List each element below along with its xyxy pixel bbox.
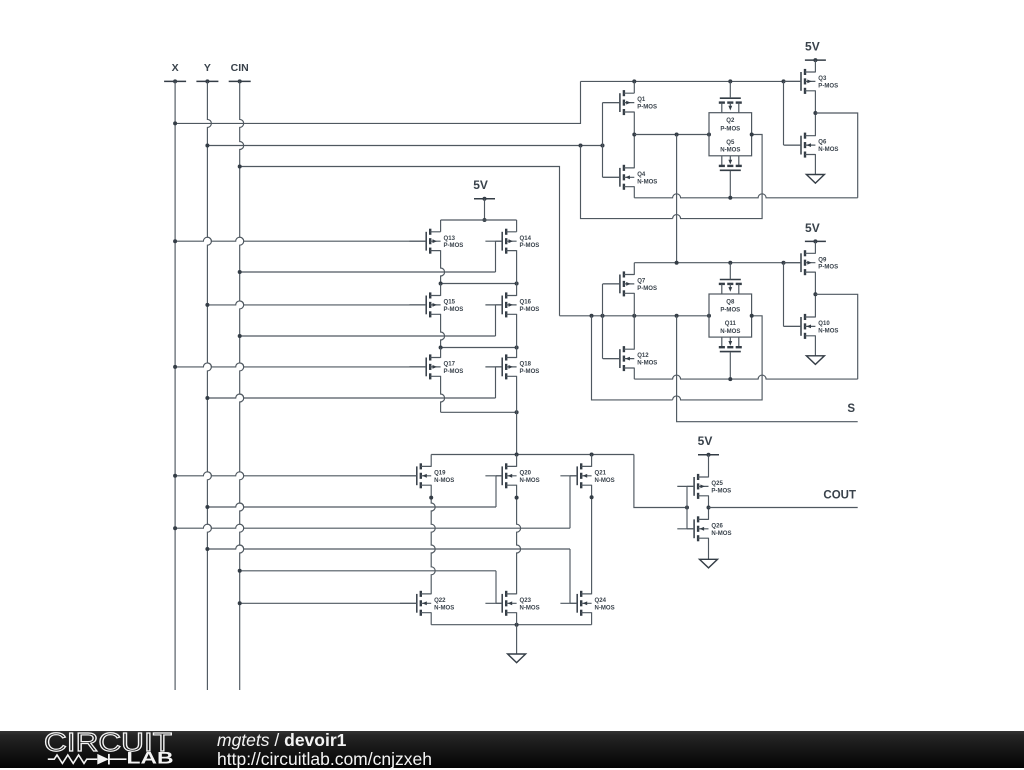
transistor Q4 — [603, 165, 657, 190]
junction node M1 — [632, 133, 636, 137]
wire cell1 top rail — [581, 80, 802, 82]
junction M1 drop tee — [675, 133, 679, 137]
junction tgate1 input — [707, 133, 711, 137]
svg-text:P-MOS: P-MOS — [711, 488, 731, 494]
wire Q24 source down — [591, 612, 593, 624]
footer url text — [217, 749, 432, 770]
transistor Q19 — [400, 463, 454, 488]
wire matrix rail P4 — [441, 411, 517, 413]
svg-text:N-MOS: N-MOS — [720, 148, 740, 154]
svg-text:CIN: CIN — [231, 62, 249, 74]
junction P4 right — [515, 410, 519, 414]
svg-text:Q5: Q5 — [726, 140, 735, 146]
wire right col seg3 — [516, 314, 518, 358]
svg-text:Q22: Q22 — [434, 598, 446, 604]
svg-text:Q17: Q17 — [444, 362, 456, 368]
transistor Q6 — [784, 133, 838, 158]
wire N col2 top — [516, 455, 518, 467]
svg-text:Q14: Q14 — [520, 236, 532, 242]
wire Y to cell1 gates — [207, 145, 602, 147]
svg-text:P-MOS: P-MOS — [444, 369, 464, 375]
junction tgate2 input — [707, 314, 711, 318]
svg-text:Q8: Q8 — [726, 300, 735, 306]
wire cell2 gate vertical — [602, 284, 604, 359]
junction tgate1 output — [750, 133, 754, 137]
svg-text:N-MOS: N-MOS — [434, 605, 454, 611]
junction rail2 M1 — [675, 261, 679, 265]
transistor Q7 — [603, 271, 657, 296]
junction rail2 Q8 gate — [728, 261, 732, 265]
junction CIN tap3 — [238, 334, 242, 338]
junction CIN tap5 — [238, 601, 242, 605]
transistor Q24 — [560, 591, 614, 616]
svg-text:COUT: COUT — [823, 489, 856, 501]
wire Q4 source down — [633, 186, 635, 198]
power 5V cell2 — [805, 221, 826, 244]
svg-text:P-MOS: P-MOS — [720, 126, 740, 132]
junction X tap3 — [173, 365, 177, 369]
svg-text:Q21: Q21 — [595, 470, 607, 476]
junction S drop tee — [675, 314, 679, 318]
transistor Q18 — [485, 354, 539, 379]
svg-text:Q19: Q19 — [434, 470, 446, 476]
wire Q25 Q26 gate vertical — [686, 486, 688, 528]
wire Y to Q15 gate — [207, 301, 426, 305]
wire Q1 drain to Q4 drain — [633, 112, 635, 169]
junction X tap4 — [173, 474, 177, 478]
wire carry node to inverter — [634, 455, 687, 508]
junction tgate2 output — [750, 314, 754, 318]
svg-text:N-MOS: N-MOS — [434, 478, 454, 484]
svg-text:P-MOS: P-MOS — [637, 105, 657, 111]
node Y input terminal — [196, 62, 218, 83]
junction N1 Q20 — [515, 453, 519, 457]
junction Y tap4 — [205, 505, 209, 509]
wire Q3 drain to Q6 drain — [814, 90, 816, 136]
transistor Q22 — [400, 591, 454, 616]
wire Y to Q24 gate — [207, 545, 570, 549]
svg-text:P-MOS: P-MOS — [818, 83, 838, 89]
wire node M2 — [560, 315, 710, 317]
svg-text:N-MOS: N-MOS — [720, 329, 740, 335]
junction N col1 — [429, 496, 433, 500]
wire Y input column — [207, 81, 211, 690]
svg-text:Q7: Q7 — [637, 279, 646, 285]
transistor pair Q8/Q11 transmission gate — [709, 280, 752, 352]
wire matrix output drop — [516, 412, 518, 454]
svg-text:N-MOS: N-MOS — [637, 361, 657, 367]
transistor Q23 — [485, 591, 539, 616]
svg-text:Q26: Q26 — [711, 523, 723, 529]
wire cell1 gate vertical — [602, 103, 604, 178]
transistor Q16 — [485, 292, 539, 317]
wire matrix rail P2 — [441, 283, 517, 285]
wire Q6 gate drop — [783, 81, 785, 145]
wire X to Q13 gate — [175, 237, 426, 241]
svg-text:P-MOS: P-MOS — [818, 265, 838, 271]
transistor pair Q2/Q5 transmission gate — [709, 98, 752, 170]
wire Q23 source down — [516, 612, 518, 624]
wire Q5 gate pin — [729, 171, 731, 198]
wire N2 to ground — [516, 625, 518, 654]
svg-text:Q2: Q2 — [726, 118, 735, 124]
svg-text:N-MOS: N-MOS — [595, 605, 615, 611]
wire left col seg6 — [441, 376, 445, 412]
svg-text:S: S — [847, 403, 855, 415]
svg-text:P-MOS: P-MOS — [520, 243, 540, 249]
junction Y tap5 — [205, 547, 209, 551]
svg-text:Y: Y — [204, 62, 211, 74]
svg-text:5V: 5V — [805, 221, 820, 235]
svg-text:Q10: Q10 — [818, 321, 830, 327]
svg-text:N-MOS: N-MOS — [595, 478, 615, 484]
wire CIN to Q23 gate — [240, 570, 496, 572]
svg-text:P-MOS: P-MOS — [520, 307, 540, 313]
wire cell1 bottom link — [634, 194, 857, 198]
wire right col seg2 — [516, 250, 518, 296]
junction CIN tap — [238, 165, 242, 169]
wire CIN to Q16 gate — [240, 335, 496, 337]
wire cell2 top rail — [634, 262, 801, 264]
svg-text:Q18: Q18 — [520, 362, 532, 368]
wire Q10 gate drop — [783, 263, 785, 327]
wire N col1 mid — [431, 485, 435, 595]
wire X to cell1 rail — [175, 81, 580, 123]
junction bypass1 tee — [579, 144, 583, 148]
junction CIN tap4 — [238, 569, 242, 573]
wire X input column — [174, 81, 176, 690]
wire CIN to M2 — [240, 167, 560, 316]
svg-text:Q24: Q24 — [595, 598, 607, 604]
junction N1 Q21 — [590, 453, 594, 457]
svg-text:Q25: Q25 — [711, 481, 723, 487]
wire Q7 drain to Q12 drain — [633, 293, 635, 350]
footer title text — [217, 730, 346, 751]
wire M1 drop to cell2 rail — [676, 135, 678, 263]
ground cell2 — [806, 356, 824, 365]
junction X tap — [173, 121, 177, 125]
wire 5V to Q25 — [708, 455, 710, 478]
wire node M1 to tgate1 — [634, 134, 709, 136]
wire Y to Q20 gate — [207, 503, 496, 507]
wire 5V to matrix rail — [484, 199, 486, 220]
svg-text:Q23: Q23 — [520, 598, 532, 604]
transistor Q14 — [485, 229, 539, 254]
ground matrix — [508, 654, 526, 663]
junction Q25 gate input — [685, 506, 689, 510]
wire matrix rail N1 — [431, 454, 634, 456]
junction Y tap — [205, 144, 209, 148]
power 5V output — [698, 434, 719, 457]
svg-text:Q3: Q3 — [818, 76, 827, 82]
svg-text:Q6: Q6 — [818, 140, 827, 146]
wire left col seg2 — [441, 250, 445, 283]
transistor Q21 — [560, 463, 614, 488]
svg-text:5V: 5V — [805, 40, 820, 54]
svg-text:Q15: Q15 — [444, 300, 456, 306]
power 5V matrix — [473, 178, 495, 201]
svg-text:Q16: Q16 — [520, 300, 532, 306]
wire Q2 gate pin — [729, 81, 731, 98]
svg-text:N-MOS: N-MOS — [818, 147, 838, 153]
svg-text:N-MOS: N-MOS — [520, 478, 540, 484]
ground cell1 — [806, 175, 824, 184]
svg-text:X: X — [172, 62, 179, 74]
transistor Q15 — [409, 292, 463, 317]
junction P2 right — [515, 282, 519, 286]
transistor Q17 — [409, 354, 463, 379]
junction rail Q2 gate — [728, 79, 732, 83]
wire COUT output — [709, 507, 858, 509]
wire matrix rail P3 — [441, 347, 517, 349]
wire N col1 top — [430, 455, 432, 467]
wire N col3 top — [591, 455, 593, 467]
wire Q6 source to ground — [814, 154, 816, 174]
wire X to Q17 gate — [175, 363, 426, 367]
junction N col3 — [590, 495, 594, 499]
node X input terminal — [164, 62, 186, 83]
junction rail Q6 gate drop — [782, 79, 786, 83]
ground output — [700, 559, 718, 568]
junction cell1 gate vertical — [601, 144, 605, 148]
svg-text:Q4: Q4 — [637, 172, 646, 178]
wire bypass2 — [592, 316, 673, 400]
wire matrix rail N2 — [431, 624, 591, 626]
junction inv1 output — [813, 111, 817, 115]
wire Q25 drain to Q26 drain — [708, 495, 710, 519]
transistor Q1 — [603, 90, 657, 115]
svg-text:N-MOS: N-MOS — [818, 328, 838, 334]
wire cell2 bottom link — [634, 375, 857, 379]
wire 5V to Q3 — [814, 60, 816, 72]
svg-text:LAB: LAB — [127, 750, 174, 768]
junction Q5 gate — [728, 196, 732, 200]
junction cell2 gate vertical — [601, 314, 605, 318]
junction Q11 gate — [728, 377, 732, 381]
wire Q26 source to ground — [708, 538, 710, 560]
svg-text:P-MOS: P-MOS — [444, 307, 464, 313]
wire Q22 source down — [430, 612, 432, 624]
junction rail Q1 source — [632, 79, 636, 83]
wire matrix rail P1 — [441, 219, 517, 221]
junction X tap5 — [173, 526, 177, 530]
junction CIN tap2 — [238, 270, 242, 274]
wire Q12 source down — [633, 368, 635, 380]
transistor Q9 — [784, 250, 838, 275]
wire rail2 to Q7 source — [633, 263, 635, 275]
wire CIN to Q14 gate — [240, 271, 496, 273]
wire bypass1 — [581, 146, 673, 219]
transistor Q26 — [677, 516, 731, 541]
wire Q1 source to rail — [633, 81, 635, 93]
wire S output — [677, 316, 858, 422]
svg-text:Q11: Q11 — [725, 321, 737, 327]
wire X to Q21 gate — [175, 524, 570, 528]
node CIN input terminal — [229, 62, 251, 83]
transistor Q10 — [784, 314, 838, 339]
svg-text:N-MOS: N-MOS — [637, 179, 657, 185]
svg-text:Q9: Q9 — [818, 257, 827, 263]
junction matrix supply — [483, 218, 487, 222]
wire CIN to Q22 gate — [240, 602, 417, 604]
wire Q8 gate pin — [729, 263, 731, 280]
wire right col seg1 — [516, 220, 518, 232]
footer bar — [0, 731, 1024, 768]
junction P2 left — [439, 282, 443, 286]
junction N2 ground — [515, 623, 519, 627]
svg-text:5V: 5V — [473, 178, 488, 192]
wire Q9 drain to Q10 drain — [814, 272, 816, 318]
wire CIN input column — [240, 81, 244, 690]
wire right col seg4 — [516, 376, 518, 412]
svg-text:N-MOS: N-MOS — [711, 531, 731, 537]
junction Q7 drain — [632, 314, 636, 318]
transistor Q13 — [409, 229, 463, 254]
svg-text:P-MOS: P-MOS — [520, 369, 540, 375]
svg-text:5V: 5V — [698, 434, 713, 448]
wire left col seg1 — [440, 220, 442, 232]
junction COUT node — [707, 506, 711, 510]
svg-text:P-MOS: P-MOS — [444, 243, 464, 249]
junction inv2 output — [813, 292, 817, 296]
svg-text:N-MOS: N-MOS — [520, 605, 540, 611]
wire N col3 mid — [591, 485, 593, 595]
junction rail2 Q10 gate drop — [782, 261, 786, 265]
junction Y tap3 — [205, 396, 209, 400]
transistor Q12 — [603, 346, 657, 371]
transistor Q20 — [485, 463, 539, 488]
wire Q11 gate pin — [729, 352, 731, 379]
junction P3 right — [515, 346, 519, 350]
svg-text:Q12: Q12 — [637, 353, 649, 359]
svg-text:Q1: Q1 — [637, 97, 646, 103]
svg-text:P-MOS: P-MOS — [720, 308, 740, 314]
svg-text:P-MOS: P-MOS — [637, 286, 657, 292]
wire left col seg5 — [440, 348, 442, 358]
transistor Q25 — [677, 474, 731, 499]
junction bypass2 tee — [590, 314, 594, 318]
junction Y tap2 — [205, 303, 209, 307]
wire inv1 output loop — [815, 113, 857, 198]
wire N col2 mid — [517, 485, 521, 595]
wire left col seg4 — [441, 314, 445, 348]
junction N col2 — [515, 496, 519, 500]
junction P3 left — [439, 346, 443, 350]
wire left col seg3 — [440, 284, 442, 296]
svg-text:Q20: Q20 — [520, 470, 532, 476]
CircuitLab logo — [0, 731, 218, 768]
power 5V cell1 — [805, 40, 826, 63]
wire 5V to Q9 — [814, 241, 816, 253]
svg-text:Q13: Q13 — [444, 236, 456, 242]
wire X to Q19 gate — [175, 472, 417, 476]
wire inv2 output loop — [815, 294, 857, 379]
wire Q10 source to ground — [814, 335, 816, 355]
junction X tap2 — [173, 239, 177, 243]
wire Y to Q18 gate — [207, 394, 495, 398]
transistor Q3 — [784, 69, 838, 94]
